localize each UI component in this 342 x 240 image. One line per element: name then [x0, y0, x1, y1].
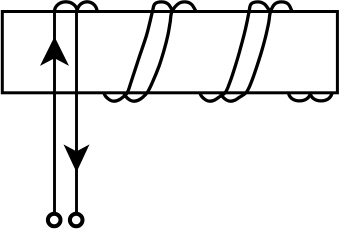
- terminal circle (left): [48, 214, 61, 227]
- wire (right terminal lead, vertical): [75, 12, 78, 213]
- down arrow head (on right lead): [64, 144, 90, 172]
- winding turn T3 (bottom hump U3 + slant S3 + top hump E): [200, 2, 270, 101]
- wire (left terminal lead, vertical): [53, 12, 56, 213]
- winding turn (bottom hump U6): [310, 93, 332, 101]
- winding turn T4 (bottom hump U4 + slant S4 + top hump F): [220, 2, 292, 101]
- core L1 (rectangle bar): [2, 12, 337, 93]
- winding turn (top hump B): [77, 2, 97, 12]
- winding turn T2 (bottom hump U2 + slant S2 + top hump D): [124, 2, 196, 101]
- up arrow head (on left lead): [40, 37, 69, 66]
- winding turn (bottom hump U5): [289, 93, 311, 101]
- winding turn T1 (bottom hump U1 + slant S1 + top hump C): [104, 2, 173, 101]
- terminal circle (right): [70, 214, 83, 227]
- winding turn (top hump A, over left lead): [55, 2, 78, 12]
